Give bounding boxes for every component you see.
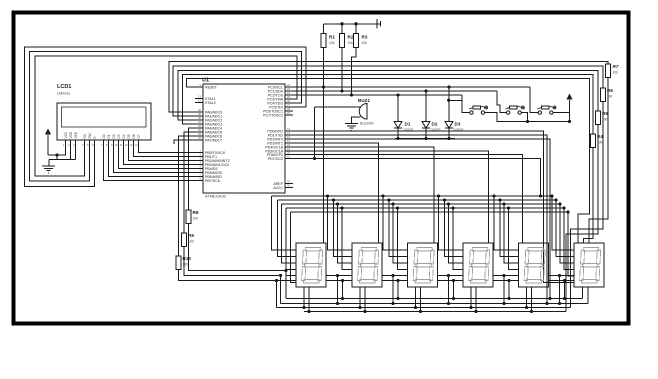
svg-text:RS: RS [83,134,87,138]
wire PA5 to R9 [184,132,195,233]
U1 right pins [285,86,293,88]
svg-text:LCD1: LCD1 [57,84,71,90]
svg-text:100: 100 [597,141,603,145]
resistor R8 [186,210,191,224]
junction R10 line [275,279,278,282]
U1 left pins [195,86,203,88]
wire PC1 line [293,90,497,92]
bottom bus line 1 [286,298,583,300]
wire display1 lower-left entries [285,271,287,299]
wire to SW2 [497,91,506,113]
junction R2-PC1 [340,89,343,92]
svg-text:VEE: VEE [74,132,78,138]
wire buzzer pin2 to ground [352,117,361,123]
resistor R5 [595,111,600,125]
microcontroller U1 body [203,84,285,193]
bus line seg3 [282,203,560,205]
junction button common [568,120,571,123]
wire R4 down [584,148,594,244]
wire to SW3 [530,87,538,113]
junction bus right [550,194,553,197]
svg-text:R1: R1 [329,35,335,40]
svg-text:D4: D4 [122,134,126,138]
wire PA7 [174,140,195,144]
wire PD1 line [293,135,547,304]
LCD LCD1 screen [62,107,147,127]
junction R3-PC2 [350,93,353,96]
seven-segment display DS3 [408,243,438,287]
svg-text:100: 100 [183,263,189,267]
wire PD2 line [293,139,550,299]
junction PD2-bottom [548,297,551,300]
wire RS loop (PC3) [35,56,297,176]
seven-segment display DS4 [463,243,493,287]
wire VSS to +5V rail [48,154,66,156]
wire PD4 line to display3 select [293,147,434,243]
wire D2 bottom [425,128,427,139]
junction rail R2 [340,22,343,25]
svg-text:AVCC: AVCC [273,186,283,190]
svg-text:RW: RW [88,133,92,138]
wire R2 bottom [341,48,343,92]
svg-text:VSS: VSS [64,132,68,138]
wire D1 top [397,95,399,122]
wire R5 down [566,125,598,312]
svg-text:100: 100 [613,71,619,75]
junction rail R3 [354,22,357,25]
wire buzzer pin1 [315,106,361,108]
diode D3 [445,122,453,129]
svg-text:R7: R7 [613,64,619,69]
svg-text:R3: R3 [362,35,368,40]
bottom bus line 3 [276,307,570,309]
wire display1 select from PC0 [323,87,325,243]
svg-text:D7: D7 [137,134,141,138]
bus right drops [552,196,574,250]
wires display DS5 chain [549,275,575,277]
bus line seg5 [291,211,569,213]
wires display DS3 upper taps [383,196,408,250]
svg-text:D2: D2 [112,134,116,138]
wire D3 top [448,87,450,122]
resistor R6 [600,88,605,102]
resistor R3 [353,34,358,48]
junction buzzer-PD7 [313,157,316,160]
seven-segment display DS5 [519,243,549,287]
junction D1-PC2 [396,93,399,96]
wires display DS2 upper taps [328,196,353,250]
wire RESET loop [187,79,590,244]
wire button common [528,121,570,123]
LCD LCD1 body [57,103,151,140]
wires display DS5 upper taps [494,196,519,250]
bus line seg4 [286,207,564,209]
svg-text:D3: D3 [455,122,461,127]
wire VDD VEE to ground [49,159,76,161]
junction R1-PC0 [322,85,325,88]
wire R1 top [323,24,325,34]
bus line seg2 [277,199,556,201]
bottom bus line 2 [281,303,588,305]
wire PA6 to R10 [179,136,196,256]
svg-text:R4: R4 [597,134,603,139]
wire D3 bottom [448,128,450,139]
svg-text:D3: D3 [117,134,121,138]
junction D2-PC1 [424,89,427,92]
wire LCD D0-D7 to PB7-PB0 staircase [139,147,196,153]
svg-text:D0: D0 [102,134,106,138]
wire R3 top [355,24,357,34]
wire SW2 right [521,113,527,122]
svg-text:D1: D1 [107,134,111,138]
wire R10 down [179,270,277,281]
resistor R7 [605,64,610,78]
diode D1 [394,122,402,129]
ground (buzzer) [345,123,358,125]
junction D3-PC0 [447,85,450,88]
button SW1 [469,106,488,114]
power flag [376,19,378,29]
svg-text:XTAL2: XTAL2 [205,101,216,105]
svg-text:100: 100 [188,240,194,244]
resistor R4 [590,134,595,148]
svg-text:D2: D2 [432,122,438,127]
seven-segment display DS6 [574,243,604,287]
resistor R2 [339,34,344,48]
junction PD1-bottom [545,302,548,305]
wires display DS3 chain [438,275,464,277]
wire node to ground line [56,155,58,160]
svg-text:BUZ1: BUZ1 [358,98,370,103]
svg-text:R10: R10 [183,256,192,261]
wire D1 bottom [397,128,399,139]
wires display DS2 chain [382,275,408,277]
wire E loop (PC5) [25,47,307,186]
wires display DS6 bottom [582,287,584,299]
power +5V arrow (buttons) [566,94,572,100]
svg-text:RESET: RESET [205,86,218,90]
wire PA3 loop to R4 [183,75,593,134]
wire R6 down [571,102,604,308]
svg-text:D1: D1 [405,122,411,127]
svg-text:10k: 10k [348,41,354,45]
junction LCD power node [55,153,58,156]
wire PA4 to R8 [189,128,196,210]
wire VCC rail [324,23,378,25]
buzzer BUZ1 [359,104,367,120]
wires display DS4 upper taps [439,196,464,250]
bus line seg1 [272,195,553,197]
wire R8 down [189,224,286,271]
svg-text:PB7/SCK: PB7/SCK [205,179,221,183]
svg-text:ATMEGA32: ATMEGA32 [205,194,227,199]
wire diode cathode rail [395,138,455,140]
svg-text:100: 100 [602,118,608,122]
wire PD3 line to display2 select [293,143,379,243]
svg-text:R5: R5 [602,111,608,116]
junction R8 line [284,269,287,272]
svg-text:D5: D5 [127,134,131,138]
bus left drops [272,196,297,250]
border frame [14,13,629,324]
wire R2 top [341,24,343,34]
wire R1 bottom [323,48,325,88]
svg-text:LM016L: LM016L [57,92,71,96]
wire to SW1 [461,95,463,100]
wire PA0 loop to R7 [169,62,608,113]
junction PD7-bus [539,194,542,197]
wire SW3 right [553,113,570,122]
wire PD6 line to display5 select [293,155,522,244]
wire PA1 loop to R6 [173,66,603,116]
svg-text:100: 100 [607,95,613,99]
wire R9 down [184,247,281,276]
wire buzzer down to PD7 line [314,107,316,159]
button SW3 [537,106,556,114]
seven-segment display DS2 [352,243,382,287]
junction R9 line [279,274,282,277]
svg-text:E: E [93,136,97,138]
bottom bus line 4 [304,311,566,313]
svg-text:10k: 10k [329,41,335,45]
seven-segment display DS1 [296,243,326,287]
svg-text:R8: R8 [193,210,199,215]
wire R3 bottom [352,48,357,96]
button SW2 [506,106,525,114]
wire D2 top [425,91,427,122]
svg-text:PD7/OC2: PD7/OC2 [268,157,283,161]
wire PD5 line to display4 select [293,151,489,243]
wire PA2 loop to R5 [178,70,598,120]
resistor R9 [181,233,186,247]
wire SW1 right [485,113,528,122]
svg-text:10k: 10k [362,41,368,45]
diode D2 [422,122,430,129]
svg-text:PA7/ADC7: PA7/ADC7 [205,139,222,143]
ground (LCD) [42,165,55,167]
wire PC2 line [293,94,462,96]
wire PD0 line to display6 [293,131,574,283]
wires display DS1 chain [326,275,352,277]
svg-text:R9: R9 [188,233,194,238]
junction SW2-SW3 node [526,120,529,123]
svg-text:R6: R6 [607,88,613,93]
power +5V arrow (LCD) [45,129,51,135]
resistor R1 [321,34,326,48]
svg-text:VDD: VDD [69,131,73,138]
wire R7 down [589,78,608,244]
svg-text:R2: R2 [348,35,354,40]
wire PC0 line [293,86,530,88]
resistor R10 [176,256,181,270]
wire RW loop (PC4) [30,52,302,182]
wire PD7 line [293,159,541,197]
wires display DS4 chain [493,275,519,277]
svg-text:100: 100 [193,217,199,221]
junction SW1 feed [447,99,450,102]
svg-text:PC7/TOSC2: PC7/TOSC2 [263,114,283,118]
svg-text:D6: D6 [132,134,136,138]
svg-text:BUZZER: BUZZER [360,122,374,126]
